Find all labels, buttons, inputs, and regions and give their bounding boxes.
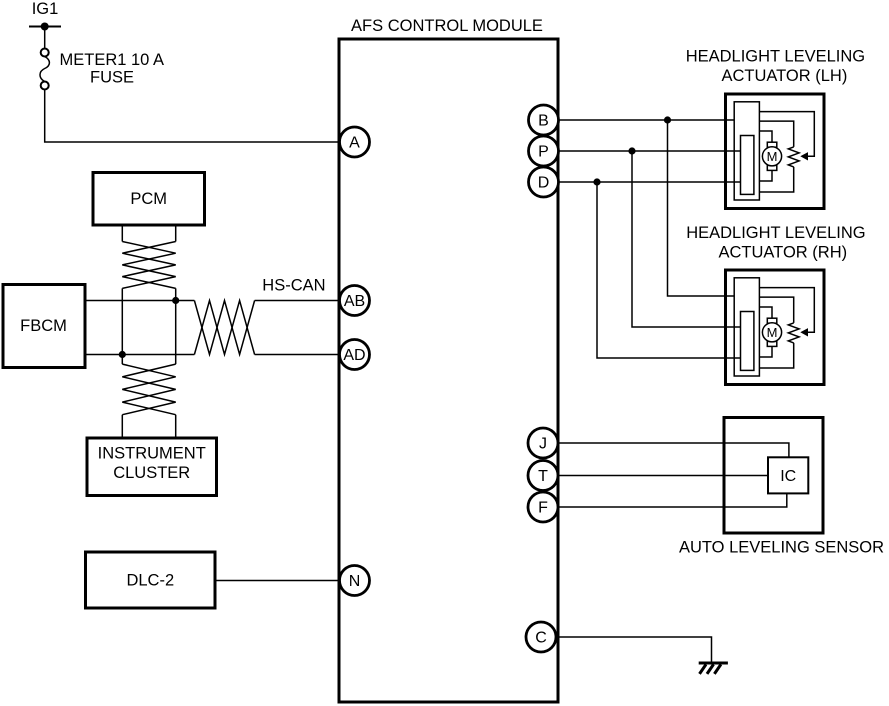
svg-text:T: T	[538, 468, 548, 485]
svg-text:ACTUATOR (LH): ACTUATOR (LH)	[721, 67, 847, 85]
svg-text:D: D	[538, 175, 550, 192]
svg-text:C: C	[535, 630, 547, 647]
svg-text:AB: AB	[344, 293, 365, 310]
svg-text:AD: AD	[343, 347, 365, 364]
svg-text:IG1: IG1	[32, 0, 59, 18]
svg-text:METER1 10 A: METER1 10 A	[60, 51, 165, 69]
svg-text:HEADLIGHT LEVELING: HEADLIGHT LEVELING	[686, 224, 865, 242]
svg-text:AFS CONTROL MODULE: AFS CONTROL MODULE	[351, 17, 543, 35]
svg-text:IC: IC	[780, 468, 796, 485]
svg-text:N: N	[349, 573, 361, 590]
svg-text:B: B	[538, 113, 549, 130]
svg-text:ACTUATOR (RH): ACTUATOR (RH)	[718, 244, 847, 262]
svg-text:HS-CAN: HS-CAN	[262, 277, 325, 295]
svg-text:M: M	[767, 149, 778, 164]
svg-text:FUSE: FUSE	[90, 69, 134, 87]
svg-text:J: J	[539, 436, 547, 453]
svg-text:F: F	[538, 500, 548, 517]
svg-text:AUTO LEVELING SENSOR: AUTO LEVELING SENSOR	[679, 539, 884, 557]
svg-text:DLC-2: DLC-2	[126, 572, 174, 590]
svg-text:HEADLIGHT LEVELING: HEADLIGHT LEVELING	[686, 48, 865, 66]
svg-text:FBCM: FBCM	[20, 317, 67, 335]
svg-text:A: A	[349, 135, 360, 152]
svg-text:PCM: PCM	[130, 190, 167, 208]
svg-text:INSTRUMENT: INSTRUMENT	[98, 445, 206, 463]
svg-text:P: P	[538, 144, 549, 161]
svg-text:CLUSTER: CLUSTER	[113, 464, 190, 482]
